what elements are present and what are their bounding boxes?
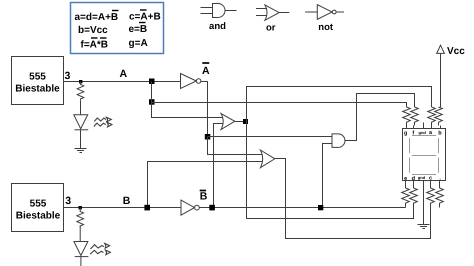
ground GND1 [75,149,87,153]
junction node B [79,206,82,209]
legend and-gate [201,4,237,18]
svg-text:e=B: e=B [129,24,148,35]
wire R1 to LED D1 [80,101,82,115]
wire Bbar to AND bottom input [323,144,333,208]
wire net f: AND output to display f resistor [345,94,415,141]
resistor Rb [435,107,443,126]
node Abar label [202,63,210,77]
resistor R2 [77,208,84,228]
not-gate U3 [181,74,201,89]
wire B from U2 pin3 to NOT input [64,207,182,209]
svg-text:3: 3 [65,70,71,82]
label or [266,23,276,34]
equation b=Vcc [78,25,108,36]
svg-text:Vcc: Vcc [447,46,465,57]
resistor R1 [77,82,84,101]
legend box [71,3,164,54]
resistor Rc [427,188,435,206]
wire Abar to AND top input [208,136,333,138]
ground GND2 [418,225,430,229]
equation e=B [129,23,148,36]
LED D2 [74,242,89,266]
not-gate U4 [181,200,199,215]
svg-text:B: B [200,191,208,203]
resistor Rf [411,107,419,126]
junction B1 [144,205,150,211]
equation a=d=A+B [75,11,119,24]
wire OR1 output [235,121,247,123]
svg-text:or: or [266,23,276,34]
svg-text:555: 555 [30,199,47,210]
light arrows D1 [94,117,112,127]
node Bbar label [200,191,208,203]
junction A2 [149,99,155,105]
wire A1 to A2 vertical [151,82,153,103]
svg-text:c=A+B: c=A+B [129,12,161,23]
pin 3 label U1 [65,70,71,82]
node A label [120,68,128,80]
wire pin stubs bottom [406,181,440,189]
wire net A to display g [152,103,407,108]
legend not-gate [305,5,344,20]
svg-text:Biestable: Biestable [15,84,60,95]
legend or-gate [256,5,289,20]
label and [209,21,226,32]
7-segment display DS1 [403,129,446,182]
resistor Re [402,188,410,208]
resistor Rd [410,188,418,206]
wire gnd pin to ground [423,181,425,225]
resistor Rg [403,107,411,126]
or-gate U5 [221,114,235,130]
svg-text:f=A*B: f=A*B [81,40,109,51]
or-gate U6 [260,150,274,168]
svg-text:A: A [202,65,210,77]
junction Bbar1 [209,205,215,211]
equation c=A+B [129,10,161,23]
pin 3 label U2 [65,195,71,207]
svg-text:3: 3 [65,195,71,207]
equation g=A [129,38,148,49]
wire net c: OR2 output to display c resistor [275,159,431,239]
Vcc label [447,46,465,57]
equation f=A*B [81,38,109,51]
node B label [123,195,131,207]
555 biestable U1 [12,57,64,105]
junction Bbar2 [318,205,323,210]
resistor Ra [428,107,436,126]
junction Abar-AND [205,134,211,140]
wire R2 to LED D2 [79,226,81,242]
svg-text:Biestable: Biestable [16,211,61,222]
junction node A [79,80,82,83]
svg-text:555: 555 [29,72,46,83]
555 biestable U2 [12,184,64,232]
svg-text:g: g [404,131,407,137]
wire net B up to OR2 bottom input [148,162,263,208]
wire A2 down to OR1 top input [152,103,223,118]
LED D1 [74,115,88,149]
wire Abar down to OR2 top input [208,137,263,155]
svg-text:and: and [209,21,226,32]
light arrows D2 [90,243,110,254]
Vcc symbol [437,45,445,107]
wire A from U1 pin3 to NOT input [63,81,181,83]
resistor Rdp [436,188,444,208]
svg-text:not: not [318,22,334,33]
wire U3 output to Abar vertical [200,82,207,137]
junction OR1 out [243,119,248,124]
svg-text:A: A [120,68,128,80]
svg-text:gnd: gnd [419,130,427,135]
wire U4 output to display e resistor [199,207,405,209]
wire net d: OR1 down to display d resistor [247,122,414,219]
svg-text:B: B [123,195,131,207]
svg-text:g=A: g=A [129,38,148,49]
and-gate U7 [332,134,345,148]
svg-text:gnd: gnd [418,175,426,180]
svg-text:b=Vcc: b=Vcc [78,25,108,36]
label not [318,22,334,33]
wire Bbar to OR1 bottom input [214,124,223,208]
svg-text:a=d=A+B: a=d=A+B [75,12,119,23]
wire net a: OR1 to display a resistor [247,87,432,122]
junction A1 [149,79,155,85]
wire pin stubs top [407,123,441,129]
